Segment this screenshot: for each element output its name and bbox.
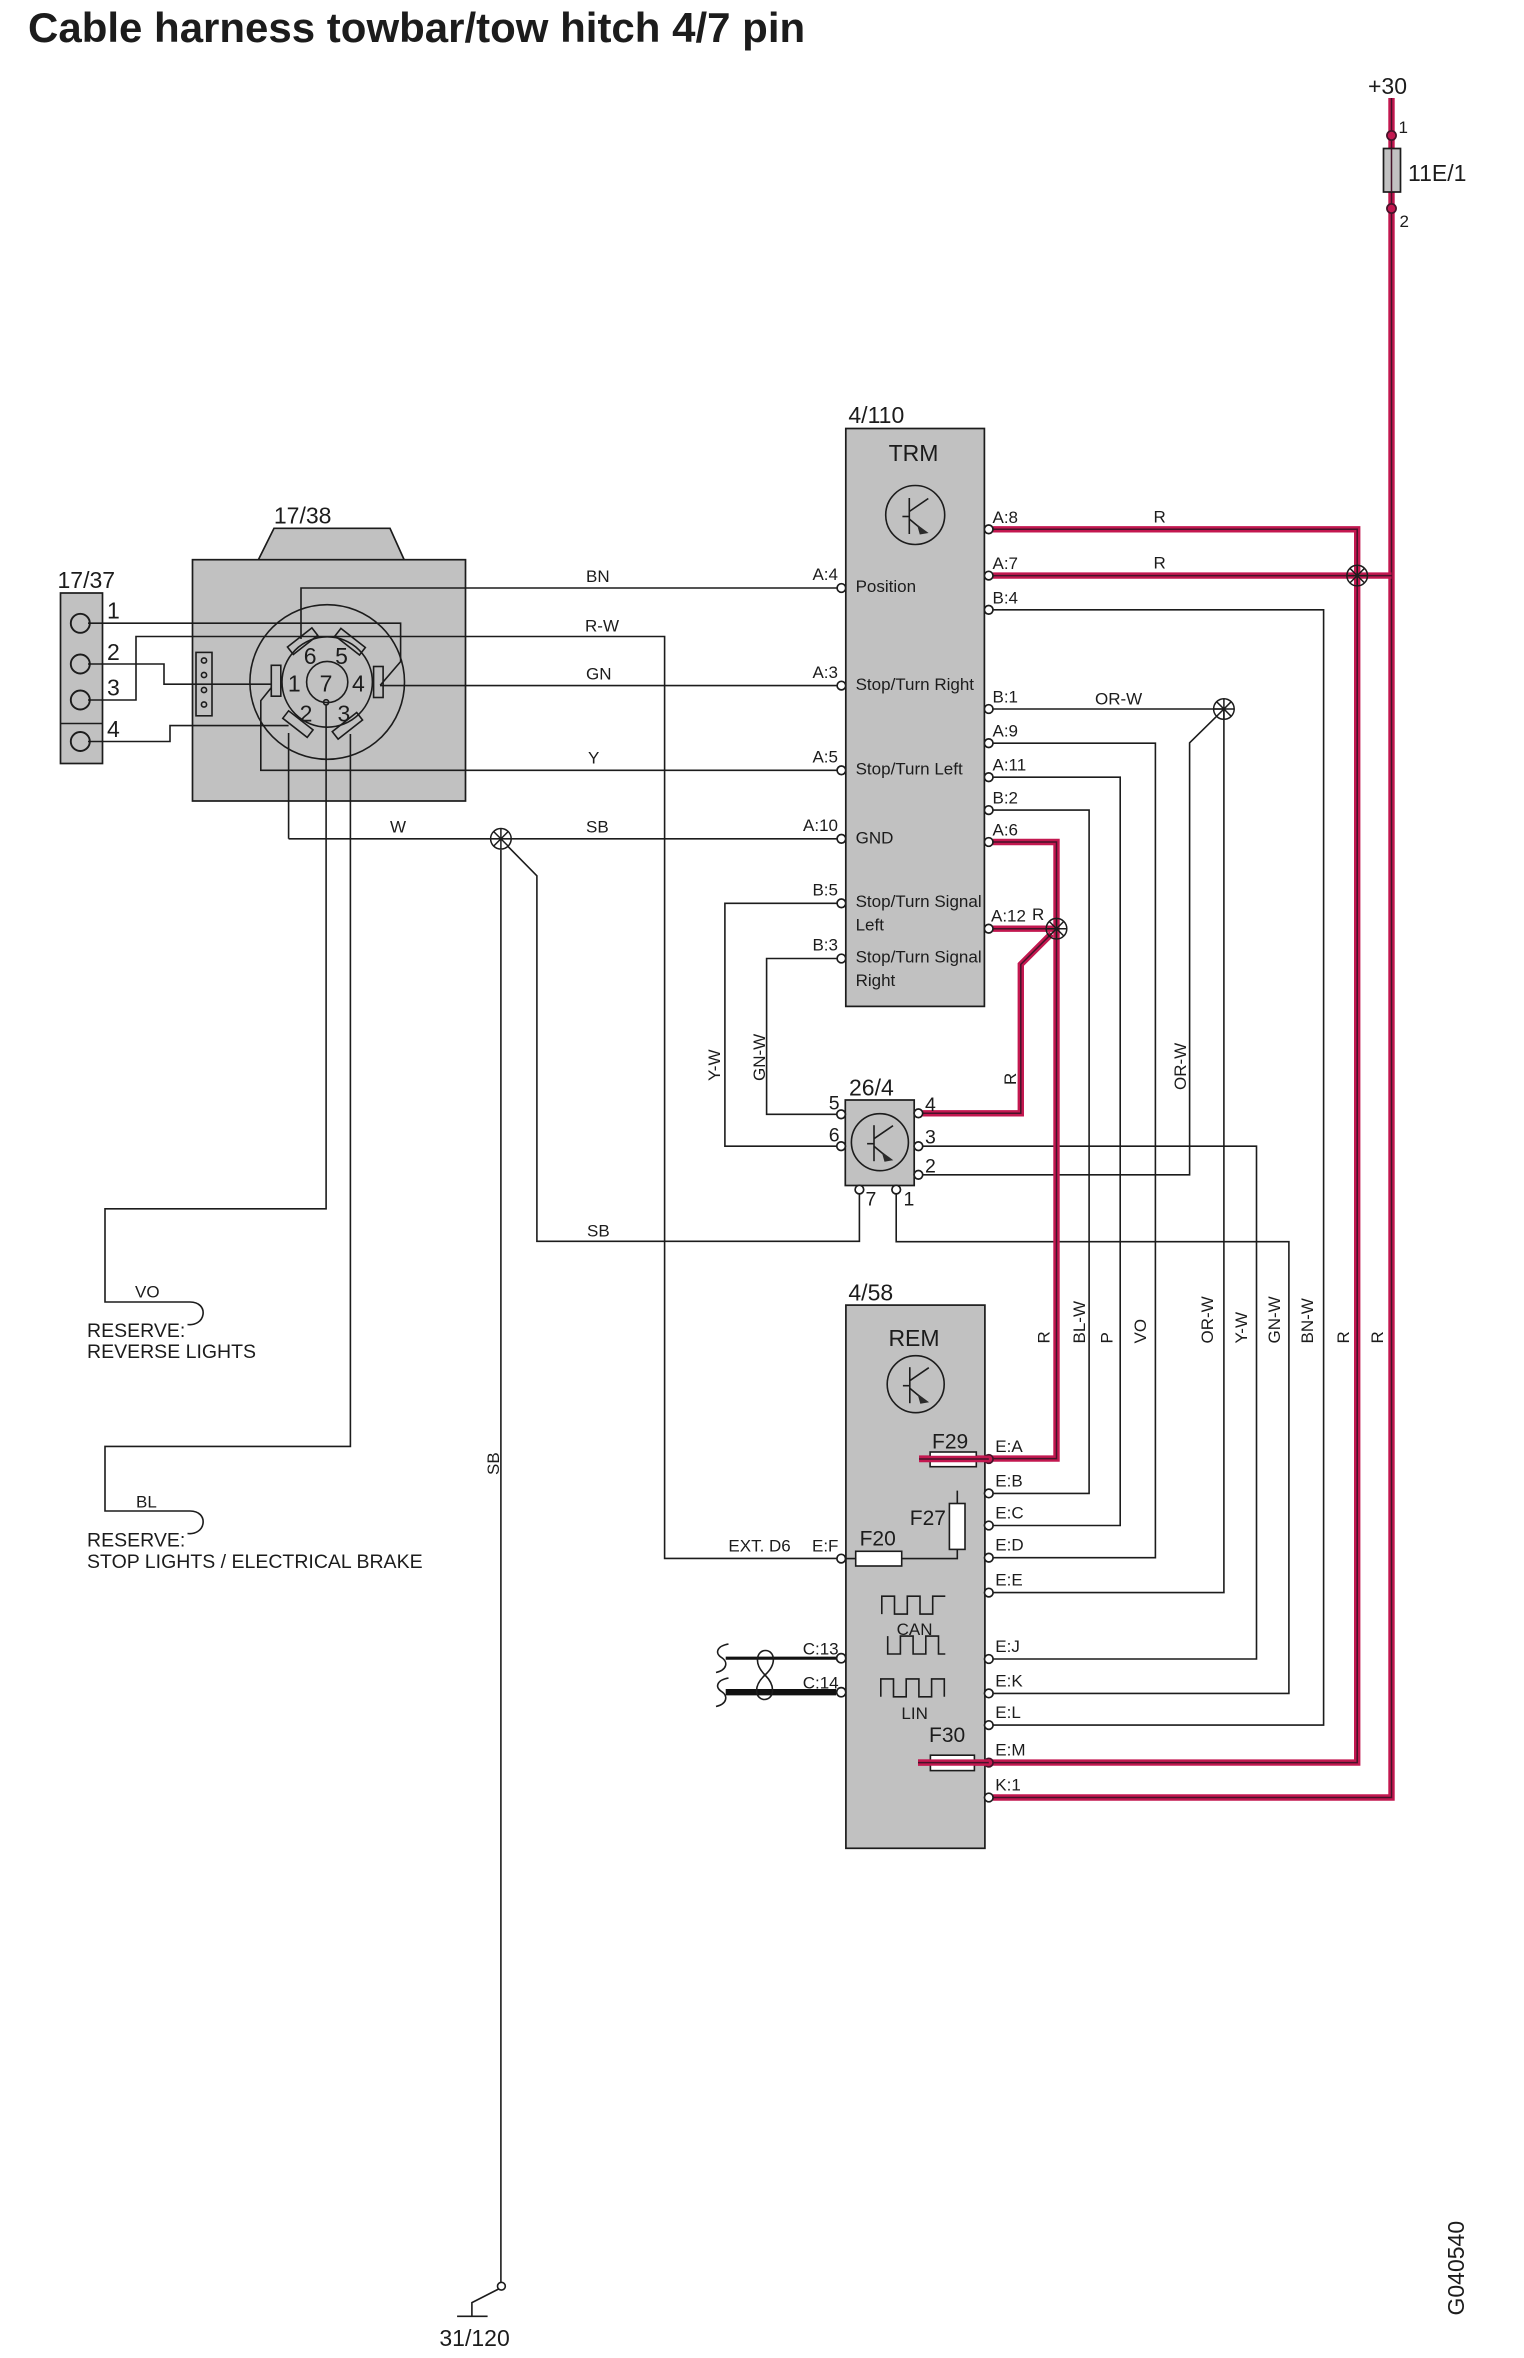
svg-text:SB: SB — [484, 1452, 503, 1475]
pin TRM A:4 — [837, 584, 846, 593]
svg-text:1: 1 — [1399, 118, 1408, 137]
connector 17/38 key tab pin 1 — [271, 665, 281, 696]
svg-text:E:L: E:L — [995, 1703, 1021, 1722]
splice junction R at A:7/A:8 — [1347, 565, 1368, 586]
CAN waveform upper — [882, 1596, 946, 1614]
wire CAN C:13 — [726, 1657, 836, 1660]
wire BL-W: TRM B:2 to REM E:B — [993, 810, 1089, 1493]
svg-text:Left: Left — [856, 916, 885, 935]
svg-text:B:5: B:5 — [812, 880, 838, 899]
fuse 11E/1 — [1384, 149, 1401, 193]
pin REM K:1 — [985, 1793, 994, 1802]
svg-text:+30: +30 — [1368, 73, 1407, 99]
wire SB: splice to ground 31/120 — [500, 850, 502, 2282]
transistor symbol 26/4 — [851, 1114, 908, 1171]
pin TRM A:6 — [984, 838, 993, 847]
svg-text:A:8: A:8 — [993, 508, 1019, 527]
transistor symbol REM — [887, 1356, 944, 1413]
svg-text:Position: Position — [856, 577, 916, 596]
svg-text:F30: F30 — [929, 1724, 965, 1747]
pin 26/4 6 — [837, 1142, 846, 1151]
svg-text:C:13: C:13 — [803, 1640, 839, 1659]
svg-text:A:7: A:7 — [993, 554, 1019, 573]
wire R: TRM A:7 to +30 feed — [993, 572, 1392, 578]
svg-text:GND: GND — [856, 828, 894, 847]
wire Y-W: TRM B:5 to 26/4 pin 6 — [725, 903, 837, 1146]
pin TRM A:11 — [984, 773, 993, 782]
svg-text:A:9: A:9 — [993, 722, 1019, 741]
connector 17/38 key tab pin 3 — [332, 713, 362, 740]
wire Y-W: 26/4 pin 3 to REM E:J — [923, 1146, 1257, 1659]
svg-text:STOP LIGHTS / ELECTRICAL BRAKE: STOP LIGHTS / ELECTRICAL BRAKE — [87, 1551, 423, 1573]
splice junction R at A:12 — [1046, 918, 1067, 939]
svg-text:OR-W: OR-W — [1171, 1043, 1190, 1090]
svg-text:2: 2 — [1400, 212, 1409, 231]
svg-text:BN: BN — [586, 567, 610, 586]
svg-text:R: R — [1032, 905, 1044, 924]
fuse F27 — [949, 1504, 965, 1550]
wire: REM E:F through fuse F20 to F27 — [845, 1491, 957, 1559]
pin REM E:M — [985, 1758, 994, 1767]
svg-text:E:K: E:K — [995, 1671, 1023, 1690]
connector 17/38 middle circle — [282, 637, 372, 727]
svg-text:E:D: E:D — [995, 1536, 1023, 1555]
wire GN: 17/38 pin 4 to TRM A:3 — [380, 685, 837, 687]
svg-text:4/58: 4/58 — [848, 1280, 893, 1306]
pin TRM B:5 — [837, 899, 846, 908]
svg-text:Stop/Turn Signal: Stop/Turn Signal — [856, 892, 982, 911]
svg-text:6: 6 — [829, 1125, 840, 1147]
svg-text:17/38: 17/38 — [274, 503, 332, 529]
relay 26/4 body — [845, 1100, 914, 1186]
svg-text:B:2: B:2 — [993, 789, 1019, 808]
svg-text:CAN: CAN — [897, 1620, 933, 1639]
svg-text:Y-W: Y-W — [705, 1050, 724, 1082]
twisted pair symbol CAN/LIN — [757, 1651, 774, 1700]
pin TRM A:12 — [984, 924, 993, 933]
svg-text:A:4: A:4 — [812, 565, 838, 584]
CAN waveform lower — [888, 1636, 946, 1654]
svg-text:SB: SB — [586, 818, 609, 837]
svg-text:7: 7 — [320, 671, 333, 697]
svg-text:G040540: G040540 — [1443, 2221, 1469, 2316]
svg-text:E:M: E:M — [995, 1741, 1025, 1760]
svg-text:3: 3 — [925, 1127, 936, 1149]
svg-text:B:3: B:3 — [812, 936, 838, 955]
connector 17/38 outer circle — [250, 605, 405, 760]
svg-text:4: 4 — [925, 1094, 936, 1116]
fuse F29 — [930, 1452, 976, 1467]
svg-text:REM: REM — [888, 1325, 939, 1351]
svg-text:E:B: E:B — [995, 1471, 1022, 1490]
svg-text:OR-W: OR-W — [1198, 1296, 1217, 1343]
wire R-W: 17/37 pin 3 to REM E:F (EXT. D6) — [88, 637, 837, 1559]
pin REM E:F — [837, 1554, 846, 1563]
pin 26/4 4 — [914, 1109, 923, 1118]
svg-text:Y: Y — [588, 749, 599, 768]
connector 17/37 body — [61, 593, 103, 764]
pin TRM B:1 — [984, 705, 993, 714]
control module TRM 4/110 body — [846, 429, 985, 1007]
connector 17/38 key tab pin 5 — [335, 628, 365, 655]
svg-text:BL-W: BL-W — [1070, 1301, 1089, 1344]
pin REM E:L — [985, 1721, 994, 1730]
wire: 17/37 pin 2 to 17/38 pin 1 — [88, 664, 271, 684]
wire R: TRM A:8 down to REM E:M via fuse F30 — [918, 529, 1357, 1762]
pin TRM B:4 — [984, 606, 993, 615]
wire OR-W: splice to 26/4 pin 2 — [923, 716, 1217, 1175]
svg-text:5: 5 — [335, 643, 348, 669]
wire VO: TRM A:9 to REM E:D — [993, 743, 1156, 1557]
connector 17/38 key tab pin 4 — [374, 667, 384, 698]
svg-text:A:11: A:11 — [993, 756, 1027, 775]
svg-text:Y-W: Y-W — [1232, 1312, 1251, 1344]
wire LIN C:14 — [726, 1689, 836, 1695]
svg-text:E:C: E:C — [995, 1504, 1023, 1523]
pin REM E:K — [985, 1689, 994, 1698]
ground 31/120 — [457, 2282, 505, 2316]
pin 26/4 3 — [914, 1142, 923, 1151]
svg-text:R: R — [1035, 1331, 1054, 1343]
pin TRM A:7 — [984, 571, 993, 580]
svg-text:11E/1: 11E/1 — [1408, 160, 1466, 186]
pin TRM A:10 — [837, 835, 846, 844]
fuse F20 — [856, 1551, 902, 1566]
svg-text:R-W: R-W — [585, 617, 619, 636]
svg-text:R: R — [1334, 1331, 1353, 1343]
svg-text:31/120: 31/120 — [439, 2325, 509, 2351]
wire: 17/37 pin 1 to 17/38 pin 4 — [88, 623, 401, 685]
svg-text:OR-W: OR-W — [1095, 690, 1142, 709]
svg-text:4: 4 — [107, 716, 120, 742]
LIN waveform — [881, 1679, 945, 1697]
wire W/SB: 17/38 pin 2 to TRM A:10 GND — [289, 733, 838, 839]
wire R: splice to 26/4 pin 4 — [923, 931, 1054, 1113]
transistor symbol TRM — [886, 486, 945, 545]
wire BL reserve: 17/38 pin 3 to reserve hook — [105, 734, 350, 1534]
svg-text:W: W — [390, 818, 406, 837]
pin REM E:J — [985, 1655, 994, 1664]
svg-text:A:6: A:6 — [993, 821, 1019, 840]
pin 26/4 7 — [855, 1185, 864, 1194]
svg-text:A:3: A:3 — [812, 663, 838, 682]
svg-text:F27: F27 — [910, 1507, 946, 1530]
svg-text:F20: F20 — [860, 1528, 896, 1551]
svg-text:3: 3 — [107, 675, 120, 701]
connector 17/38 key tab pin 2 — [283, 711, 313, 738]
pin circles 17/37 1-4 — [71, 614, 90, 751]
wire SB: splice to 26/4 pin 7 — [508, 846, 860, 1241]
svg-text:VO: VO — [1131, 1319, 1150, 1344]
svg-text:R: R — [1001, 1073, 1020, 1085]
svg-text:E:A: E:A — [995, 1437, 1023, 1456]
pin fuse 11E/1 1 — [1387, 131, 1396, 140]
svg-text:B:4: B:4 — [993, 588, 1019, 607]
pin TRM B:2 — [984, 806, 993, 815]
wire R +30 feed: fuse 11E/1 down to REM K:1 — [993, 98, 1392, 1798]
pin TRM A:9 — [984, 739, 993, 748]
svg-text:K:1: K:1 — [995, 1776, 1021, 1795]
svg-text:F29: F29 — [932, 1430, 968, 1453]
cable break symbol C:14 — [716, 1678, 729, 1707]
svg-text:A:5: A:5 — [812, 747, 838, 766]
red wire through fuse F29 — [919, 1456, 989, 1462]
svg-text:TRM: TRM — [889, 440, 939, 466]
svg-text:Right: Right — [856, 971, 896, 990]
svg-text:Stop/Turn Signal: Stop/Turn Signal — [856, 948, 982, 967]
svg-text:3: 3 — [338, 701, 351, 727]
svg-text:E:J: E:J — [995, 1637, 1020, 1656]
svg-text:B:1: B:1 — [993, 688, 1019, 707]
svg-text:REVERSE LIGHTS: REVERSE LIGHTS — [87, 1341, 256, 1363]
svg-text:BL: BL — [136, 1493, 157, 1512]
wire R: TRM A:12 splice down to REM E:A via fuse F29 — [919, 929, 1056, 1459]
pin REM E:D — [985, 1553, 994, 1562]
connector 17/38 pin 7 circle — [307, 661, 348, 702]
wire VO reserve: 17/38 pin 7 to reserve hook — [105, 705, 326, 1325]
svg-text:E:E: E:E — [995, 1571, 1022, 1590]
svg-text:2: 2 — [107, 639, 120, 665]
svg-text:R: R — [1368, 1331, 1387, 1343]
wire: 17/37 pin 4 to 17/38 pin 2 — [88, 726, 289, 742]
pin REM E:C — [985, 1521, 994, 1530]
svg-text:EXT. D6: EXT. D6 — [728, 1536, 790, 1555]
svg-text:SB: SB — [587, 1222, 610, 1241]
pin REM E:B — [985, 1489, 994, 1498]
svg-text:C:14: C:14 — [803, 1674, 839, 1693]
svg-text:26/4: 26/4 — [849, 1075, 894, 1101]
svg-text:1: 1 — [288, 671, 301, 697]
connector 17/38 key tab pin 6 — [287, 628, 317, 655]
pin TRM A:8 — [984, 525, 993, 534]
splice junction OR-W at B:1 — [1214, 699, 1235, 720]
svg-text:4/110: 4/110 — [848, 402, 904, 428]
splice junction SB at W wire — [491, 829, 512, 850]
svg-text:BN-W: BN-W — [1298, 1298, 1317, 1343]
svg-text:4: 4 — [352, 671, 365, 697]
fuse F30 — [930, 1755, 974, 1770]
pin 26/4 5 — [837, 1110, 846, 1119]
wire BN-W: TRM B:4 to REM E:L — [993, 610, 1324, 1725]
wire GN-W: 26/4 pin 1 to REM E:K — [896, 1194, 1289, 1694]
svg-text:2: 2 — [925, 1156, 936, 1178]
pin 26/4 2 — [914, 1171, 923, 1180]
pin TRM B:3 — [837, 954, 846, 963]
svg-text:1: 1 — [904, 1189, 915, 1211]
pin REM E:A — [985, 1455, 994, 1464]
svg-text:5: 5 — [829, 1093, 840, 1115]
wire Y: 17/38 pin 1 to TRM A:5 — [261, 688, 837, 771]
svg-text:A:10: A:10 — [803, 816, 838, 835]
wire BN: 17/38 pin 6 to TRM A:4 — [301, 588, 837, 639]
svg-text:GN: GN — [586, 665, 612, 684]
pin REM E:E — [985, 1588, 994, 1597]
connector 17/38 aux contact strip — [196, 652, 212, 715]
wire GN-W: TRM B:3 to 26/4 pin 5 — [767, 959, 838, 1115]
svg-text:GN-W: GN-W — [1265, 1296, 1284, 1343]
svg-text:RESERVE:: RESERVE: — [87, 1530, 185, 1552]
wire OR-W: TRM B:1 to splice to REM E:E — [993, 709, 1224, 1593]
svg-text:R: R — [1154, 508, 1166, 527]
svg-text:2: 2 — [300, 701, 313, 727]
control module REM 4/58 body — [846, 1305, 985, 1848]
svg-text:R: R — [1154, 554, 1166, 573]
svg-text:A:12: A:12 — [991, 907, 1026, 926]
svg-text:Stop/Turn Right: Stop/Turn Right — [856, 675, 975, 694]
svg-text:6: 6 — [304, 643, 317, 669]
pin REM C:13 — [837, 1654, 846, 1663]
svg-text:7: 7 — [866, 1189, 877, 1211]
svg-text:RESERVE:: RESERVE: — [87, 1320, 185, 1342]
svg-text:LIN: LIN — [901, 1704, 927, 1723]
pin 26/4 1 — [892, 1185, 901, 1194]
red wire through fuse F30 — [918, 1759, 989, 1765]
connector 17/38 pin 7 terminal — [324, 700, 329, 705]
svg-text:Cable harness towbar/tow hitch: Cable harness towbar/tow hitch 4/7 pin — [28, 4, 805, 51]
svg-text:17/37: 17/37 — [58, 567, 116, 593]
svg-text:E:F: E:F — [812, 1536, 838, 1555]
pin TRM A:5 — [837, 766, 846, 775]
svg-text:1: 1 — [107, 598, 120, 624]
pin TRM A:3 — [837, 681, 846, 690]
svg-text:Stop/Turn Left: Stop/Turn Left — [856, 760, 963, 779]
svg-text:GN-W: GN-W — [750, 1034, 769, 1081]
wire P: TRM A:11 to REM E:C — [993, 777, 1120, 1525]
cable break symbol C:13 — [716, 1644, 729, 1673]
svg-text:P: P — [1098, 1332, 1117, 1343]
connector 17/38 body — [193, 528, 466, 801]
wire R: TRM A:6 to splice — [993, 842, 1057, 929]
pin REM C:14 — [837, 1688, 846, 1697]
svg-text:VO: VO — [135, 1283, 160, 1302]
pin fuse 11E/1 2 — [1387, 204, 1396, 213]
